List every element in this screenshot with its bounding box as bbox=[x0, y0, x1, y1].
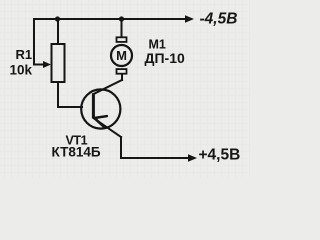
power arrow to -4.5V bbox=[185, 15, 194, 22]
wire: emitter vertical drop bbox=[120, 137, 122, 158]
wire: top -4.5V rail bbox=[34, 18, 187, 20]
transistor VT1 emitter arrowhead (PNP) bbox=[94, 116, 107, 127]
motor M1 bottom brush bbox=[117, 69, 127, 74]
svg-text:R1: R1 bbox=[16, 47, 33, 62]
svg-text:-4,5В: -4,5В bbox=[200, 11, 238, 28]
wire: resistor top lead bbox=[57, 19, 59, 44]
svg-text:10k: 10k bbox=[10, 63, 33, 78]
svg-text:+4,5В: +4,5В bbox=[199, 147, 241, 164]
motor M1 body circle bbox=[111, 45, 132, 66]
motor M1 top brush bbox=[117, 37, 127, 42]
background graph-paper bbox=[0, 0, 250, 178]
node: junction of motor top lead and top rail bbox=[119, 16, 124, 21]
wire: left vertical branch to wiper bbox=[33, 19, 35, 65]
resistor R1 body (potentiometer rectangle) bbox=[52, 44, 65, 82]
resistor R1 wiper arrowhead bbox=[43, 61, 51, 68]
transistor VT1 base bar bbox=[92, 93, 95, 118]
svg-text:M: M bbox=[116, 48, 127, 63]
node: junction of resistor top lead and top rail bbox=[55, 16, 60, 21]
power arrow to +4.5V bbox=[188, 154, 197, 161]
wire: bottom +4.5V rail bbox=[121, 157, 190, 159]
svg-text:КТ814Б: КТ814Б bbox=[52, 145, 101, 160]
wire: motor bottom lead / collector vertical bbox=[121, 74, 123, 81]
svg-text:ДП-10: ДП-10 bbox=[145, 50, 185, 66]
wire: emitter diagonal bbox=[94, 118, 121, 137]
wire: collector diagonal bbox=[94, 80, 122, 94]
transistor VT1 body circle bbox=[81, 89, 120, 128]
wire: resistor bottom lead bbox=[57, 82, 59, 107]
wire: wiper horizontal segment bbox=[34, 64, 45, 66]
wire: motor top lead bbox=[121, 19, 123, 38]
wire: base wire to transistor bbox=[58, 106, 82, 108]
